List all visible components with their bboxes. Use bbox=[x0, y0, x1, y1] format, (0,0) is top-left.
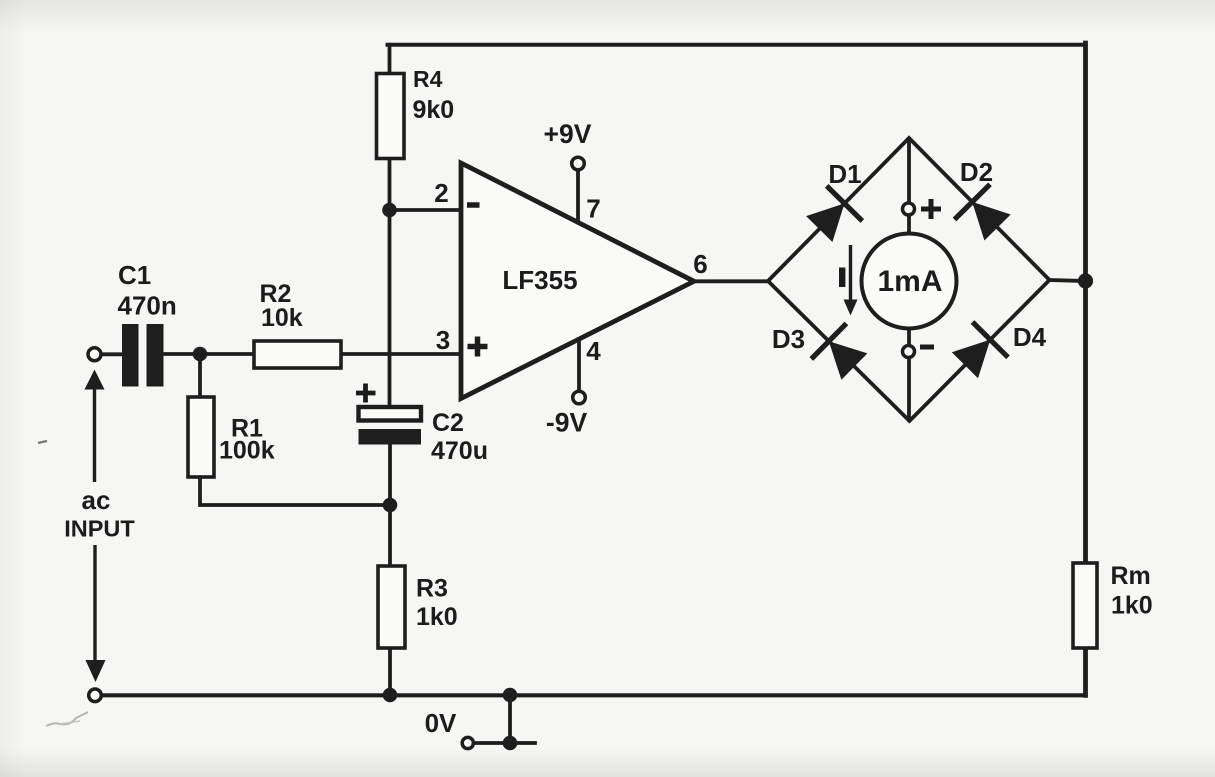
svg-text:470n: 470n bbox=[118, 291, 177, 321]
svg-text:1k0: 1k0 bbox=[416, 603, 458, 631]
svg-text:4: 4 bbox=[586, 336, 601, 366]
svg-text:C2: C2 bbox=[432, 409, 464, 437]
svg-text:Rm: Rm bbox=[1111, 562, 1151, 590]
svg-text:INPUT: INPUT bbox=[64, 516, 135, 542]
svg-text:D4: D4 bbox=[1013, 322, 1047, 352]
svg-text:C1: C1 bbox=[118, 260, 151, 290]
svg-text:6: 6 bbox=[693, 249, 707, 279]
svg-text:1k0: 1k0 bbox=[1111, 592, 1153, 620]
svg-text:1mA: 1mA bbox=[877, 265, 942, 298]
svg-text:3: 3 bbox=[436, 325, 450, 355]
svg-text:R4: R4 bbox=[413, 66, 443, 92]
svg-text:470u: 470u bbox=[431, 437, 488, 465]
svg-text:R3: R3 bbox=[416, 575, 448, 603]
svg-text:LF355: LF355 bbox=[502, 265, 577, 295]
svg-text:0V: 0V bbox=[425, 708, 457, 738]
svg-text:+9V: +9V bbox=[544, 119, 592, 149]
svg-text:-9V: -9V bbox=[546, 408, 588, 438]
svg-text:ac: ac bbox=[82, 485, 111, 515]
svg-text:2: 2 bbox=[434, 178, 448, 208]
svg-text:10k: 10k bbox=[261, 304, 303, 332]
svg-text:D2: D2 bbox=[960, 157, 993, 187]
svg-text:D1: D1 bbox=[828, 159, 861, 189]
svg-text:7: 7 bbox=[586, 194, 600, 224]
svg-text:9k0: 9k0 bbox=[413, 96, 455, 124]
svg-text:D3: D3 bbox=[772, 324, 805, 354]
svg-text:100k: 100k bbox=[219, 437, 275, 465]
